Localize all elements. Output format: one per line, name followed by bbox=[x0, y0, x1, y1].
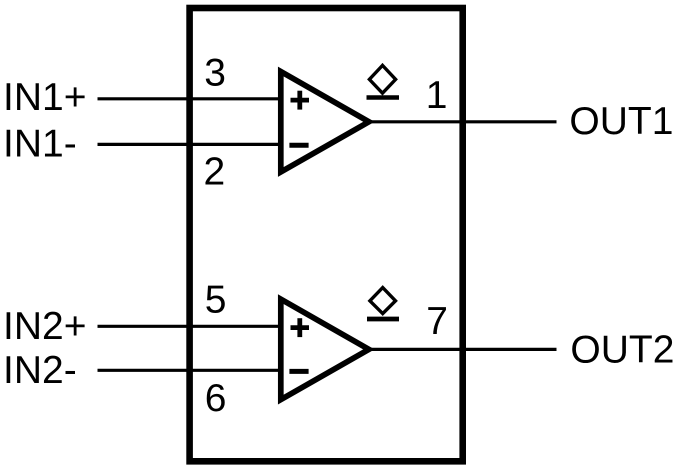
svg-text:1: 1 bbox=[426, 74, 448, 117]
svg-text:IN2+: IN2+ bbox=[3, 305, 86, 348]
op-amp B minus input symbol bbox=[289, 369, 308, 374]
svg-text:IN1+: IN1+ bbox=[3, 76, 86, 119]
wire IN1+ to op-amp A non-inverting input bbox=[98, 97, 285, 100]
trim symbol underline op-amp B bbox=[367, 317, 399, 322]
trim symbol underline op-amp A bbox=[367, 95, 400, 100]
trim symbol (diamond) op-amp B bbox=[370, 288, 396, 314]
svg-text:6: 6 bbox=[205, 377, 227, 420]
svg-text:2: 2 bbox=[204, 150, 226, 193]
svg-text:5: 5 bbox=[205, 278, 227, 321]
svg-text:7: 7 bbox=[426, 300, 448, 343]
wire IN1- to op-amp A inverting input bbox=[98, 143, 285, 146]
op-amp U1A triangle bbox=[281, 72, 369, 173]
svg-text:OUT2: OUT2 bbox=[570, 328, 674, 371]
op-amp U1B triangle bbox=[281, 299, 369, 400]
wire IN2- to op-amp B inverting input bbox=[98, 369, 285, 372]
op-amp A minus input symbol bbox=[289, 143, 308, 148]
svg-text:3: 3 bbox=[204, 51, 226, 94]
wire IN2+ to op-amp B non-inverting input bbox=[98, 325, 285, 328]
wire OUT1 from op-amp A output bbox=[370, 120, 557, 123]
svg-text:IN2-: IN2- bbox=[3, 349, 77, 392]
svg-text:IN1-: IN1- bbox=[3, 123, 77, 166]
wire OUT2 from op-amp B output bbox=[370, 348, 557, 351]
trim symbol (diamond) op-amp A bbox=[369, 65, 395, 93]
op-amp A plus input symbol bbox=[291, 91, 310, 110]
op-amp B plus input symbol bbox=[291, 318, 310, 337]
IC package outline U1 bbox=[190, 8, 463, 461]
svg-text:OUT1: OUT1 bbox=[569, 100, 673, 143]
